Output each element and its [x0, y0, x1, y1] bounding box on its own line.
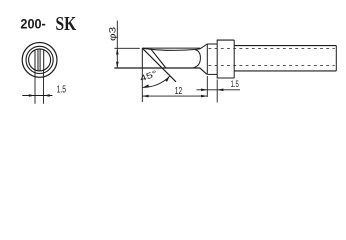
blade edge chord right: [39, 49, 41, 71]
extension line right of neck 1.5: [216, 80, 218, 103]
end-view outer circle: [22, 43, 57, 78]
neck width dimension line 1.5: [197, 89, 241, 91]
blade top outline sagging into cone flare: [142, 44, 207, 50]
arrowhead pointing left at neck right: [217, 89, 223, 92]
blade length dimension line 12: [142, 95, 207, 97]
hidden bore line lower: [209, 65, 335, 67]
svg-text:SK: SK: [56, 13, 77, 35]
extension line right of slot width: [43, 70, 45, 104]
dimension line slot width 1.5: [22, 95, 52, 97]
blade slot right face chord: [43, 50, 45, 70]
collar right face: [233, 40, 235, 78]
arrowhead pointing right at neck left: [201, 89, 207, 92]
arrowhead pointing right at cone end: [201, 95, 207, 98]
svg-text:1.5: 1.5: [231, 79, 239, 89]
svg-text:1.5: 1.5: [57, 84, 67, 95]
end-view middle circle: [26, 46, 53, 73]
arrowhead pointing down at bottom extension: [116, 62, 119, 68]
svg-text:φ3: φ3: [107, 27, 117, 41]
angle dimension arc 45deg: [142, 76, 170, 88]
barrel top: [234, 45, 336, 47]
blade edge chord left: [37, 49, 39, 71]
svg-text:12: 12: [175, 86, 183, 97]
arrowhead pointing left at right extension: [44, 94, 50, 97]
knife bevel second line converging: [151, 49, 166, 68]
extension line left of neck 1.5: [206, 76, 208, 97]
blade slot left face chord: [34, 50, 36, 70]
arrowhead at arc left end: [143, 84, 149, 87]
extension line left of slot width: [34, 70, 36, 104]
rounded inner end of blade face: [194, 50, 201, 68]
hidden bore line upper: [209, 48, 335, 50]
collar bottom: [217, 77, 235, 79]
blade left end face: [141, 48, 143, 68]
svg-text:45°: 45°: [138, 68, 158, 84]
top extension line of diameter: [114, 47, 139, 49]
knife edge 45deg line extended below: [142, 48, 176, 82]
barrel right end: [335, 46, 337, 71]
blade top straight outline: [142, 47, 200, 49]
extension line below blade end: [141, 68, 143, 102]
arrowhead at arc right end: [165, 76, 170, 82]
end-view inner circle: [29, 49, 51, 71]
barrel bottom: [234, 70, 336, 72]
collar top: [217, 39, 235, 41]
blade bottom outline with left extension and cone flare: [114, 68, 206, 74]
cone end vertical edge: [206, 44, 208, 75]
arrowhead pointing right at left extension: [29, 94, 35, 97]
collar left face: [216, 40, 218, 78]
neck cylinder bottom: [207, 73, 217, 75]
neck cylinder top: [207, 43, 217, 45]
arrowhead pointing left at blade end: [142, 95, 148, 98]
diameter dimension vertical line: [116, 21, 118, 69]
arrowhead pointing up at top extension: [116, 48, 119, 54]
svg-text:200-: 200-: [20, 16, 45, 31]
